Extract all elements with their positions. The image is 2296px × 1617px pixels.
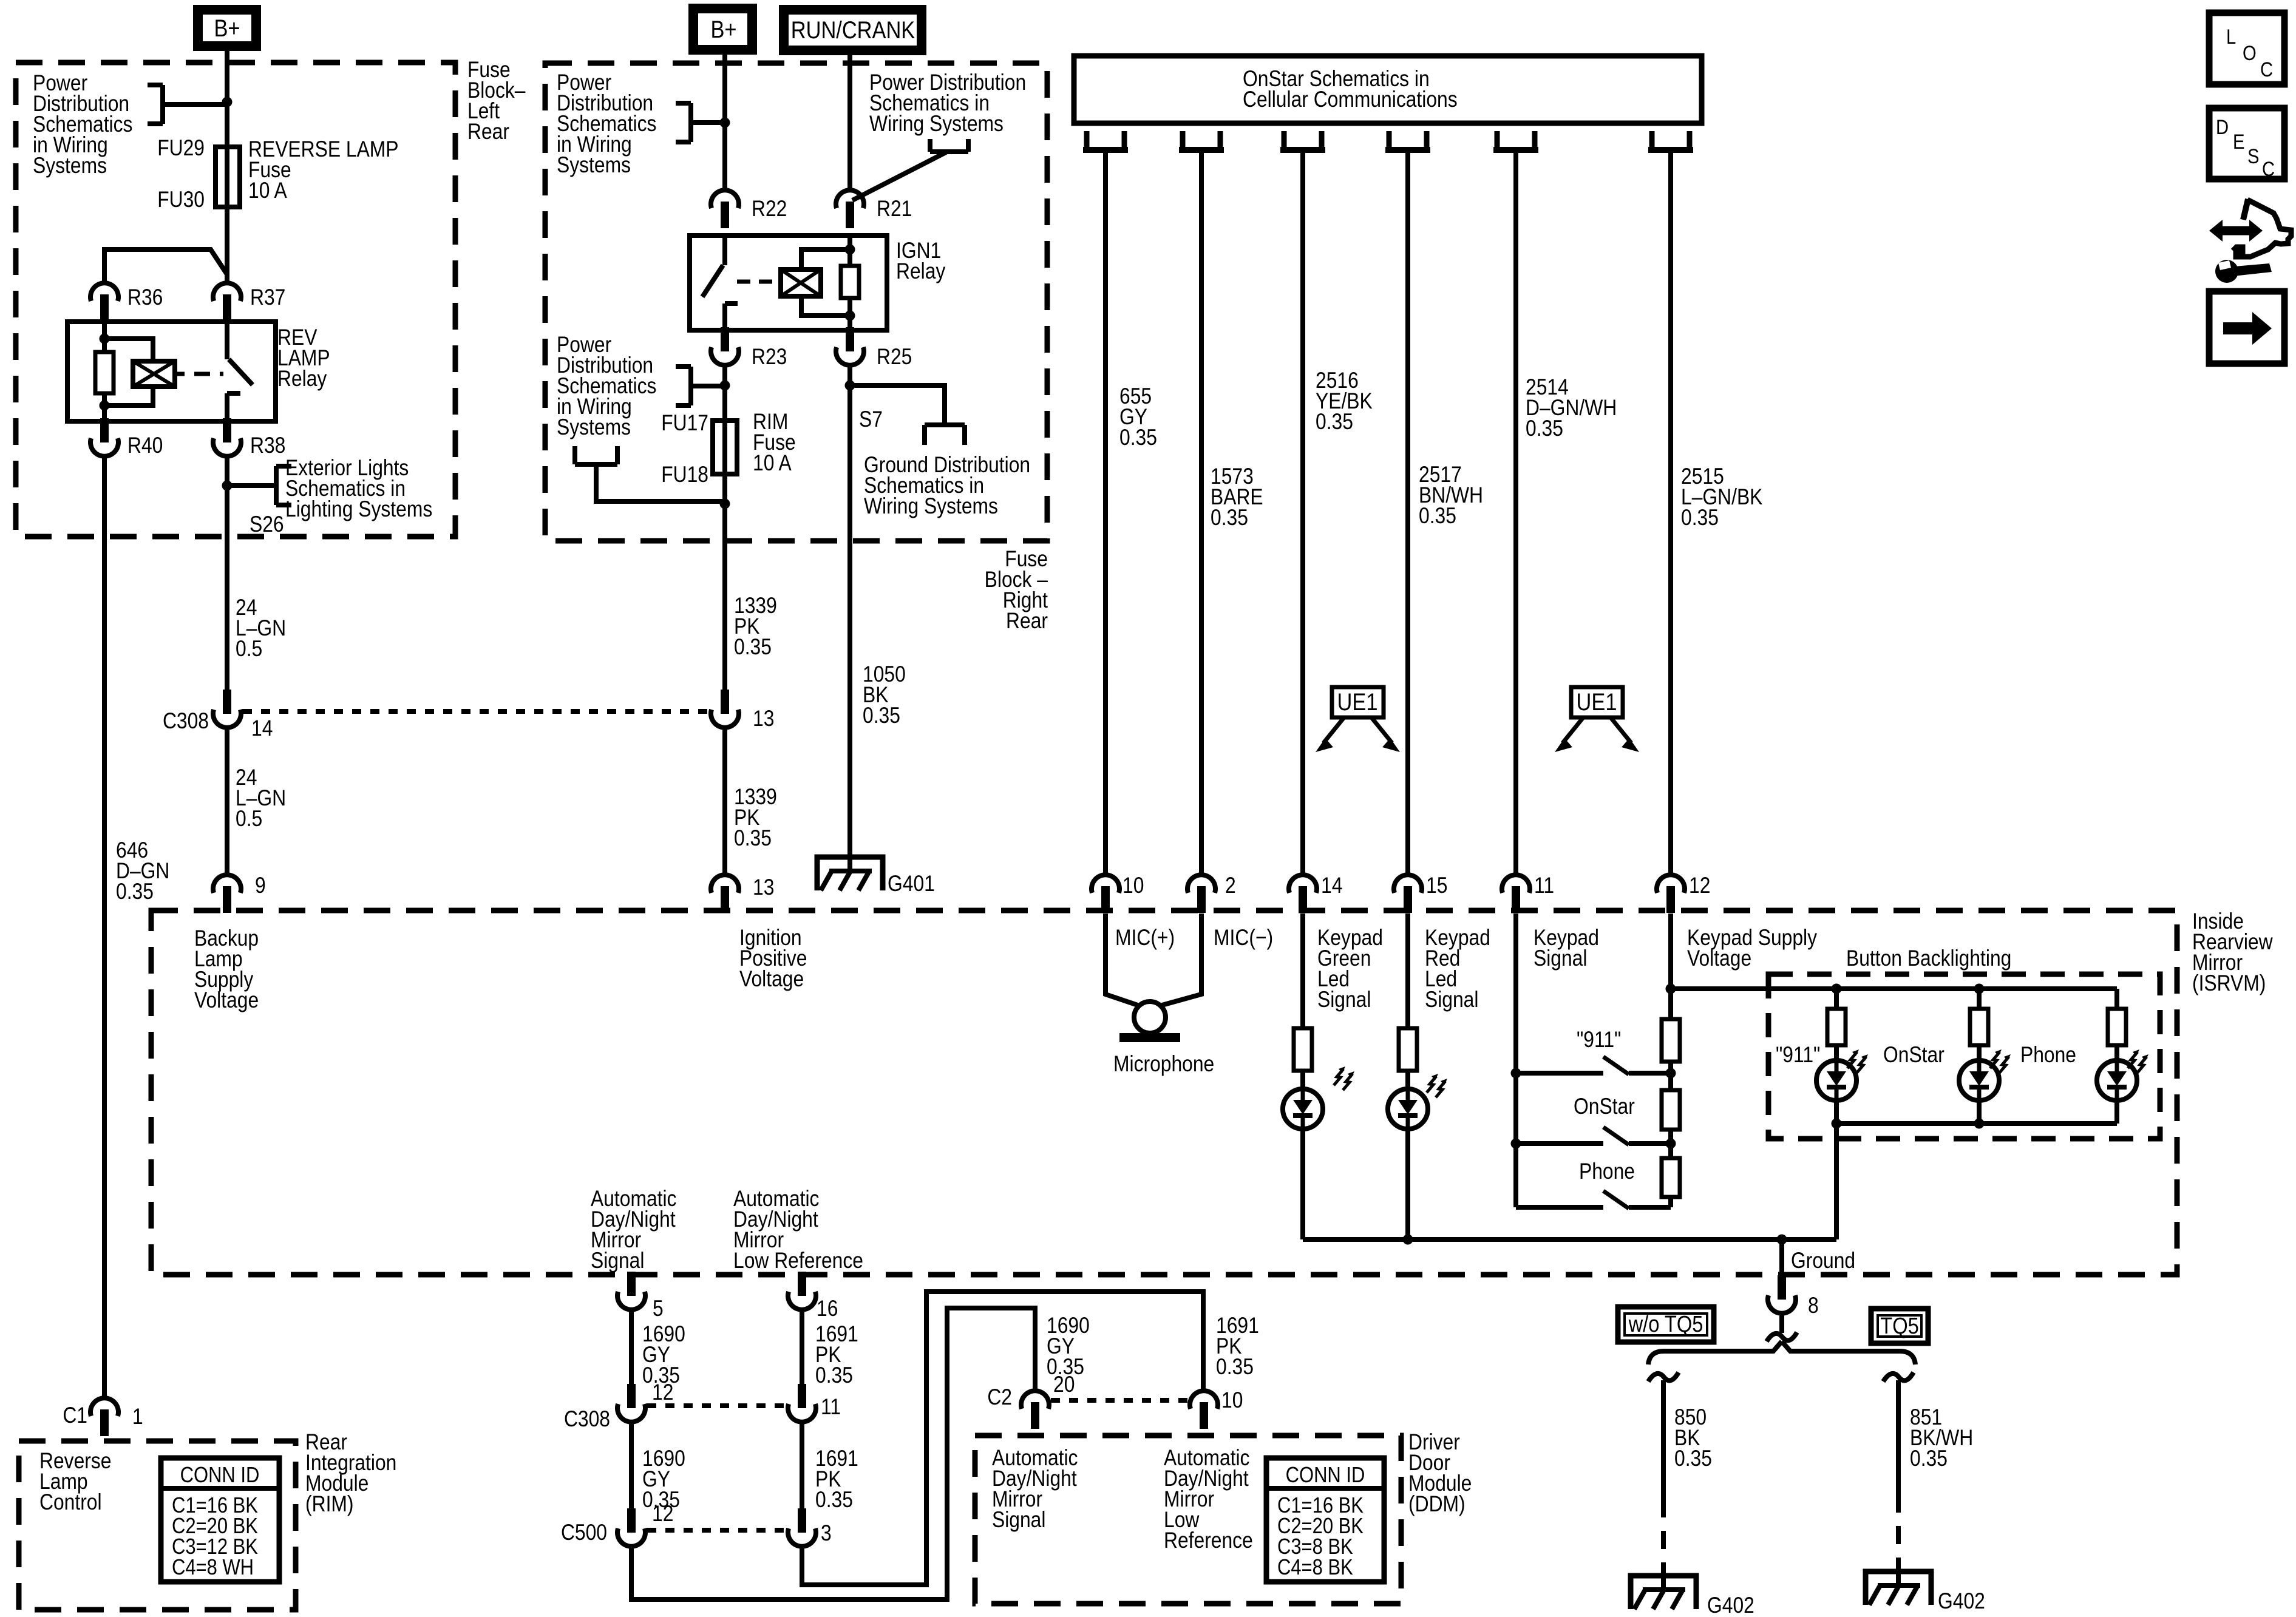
svg-text:(DDM): (DDM)	[1408, 1492, 1466, 1517]
svg-text:0.35: 0.35	[1119, 425, 1157, 450]
IGN1 relay coil parallel branch	[801, 249, 850, 269]
in-line connector C308 pin 14	[213, 710, 241, 728]
svg-text:TQ5: TQ5	[1880, 1313, 1919, 1339]
dashed enclosure Button Backlighting	[1768, 974, 2160, 1139]
REV LAMP relay coil-side wire with junctions	[102, 322, 107, 421]
wire 851 BK/WH to G402	[1896, 1380, 1901, 1494]
junction node below RIM fuse	[720, 499, 730, 509]
svg-text:R21: R21	[877, 197, 912, 222]
svg-text:O: O	[2243, 41, 2257, 65]
svg-text:CONN ID: CONN ID	[1286, 1463, 1365, 1488]
option tag UE1 (right pair)	[1571, 687, 1623, 717]
connector pin 10 MIC(+)	[1092, 875, 1119, 893]
svg-text:10 A: 10 A	[753, 451, 792, 476]
wire from R38 down to splice S26 and pin 9	[225, 458, 229, 702]
svg-text:13: 13	[753, 707, 774, 731]
connector tab for MIC(+) drop	[1084, 131, 1090, 150]
svg-text:Systems: Systems	[557, 153, 631, 178]
LED OnStar backlight	[1959, 1060, 1999, 1100]
LED keypad red	[1388, 1089, 1428, 1129]
svg-text:12: 12	[652, 1502, 673, 1527]
connector pin 8 ground exit	[1768, 1295, 1796, 1314]
junction node above RIM fuse	[720, 381, 730, 391]
svg-text:0.5: 0.5	[236, 637, 262, 662]
svg-text:3: 3	[821, 1521, 832, 1546]
svg-text:Signal: Signal	[992, 1508, 1045, 1533]
green LED light arrows	[1334, 1069, 1343, 1085]
callout bracket Exterior Lights Schematics	[227, 483, 276, 488]
svg-text:C1: C1	[63, 1403, 87, 1428]
chain wire C to bottom row	[1668, 1197, 1673, 1207]
svg-text:C500: C500	[561, 1520, 607, 1545]
wire 2517 BN/WH from OnStar to pin 15	[1405, 150, 1410, 873]
wire to Phone LED	[2114, 1045, 2119, 1060]
svg-text:Voltage: Voltage	[1687, 946, 1751, 971]
dashed enclosure Rear Integration Module (RIM)	[19, 1441, 296, 1610]
junction node relay coil top	[100, 334, 110, 344]
connector pin 11 Keypad Signal	[1502, 875, 1530, 893]
connector pin 5 mirror signal	[617, 1292, 645, 1310]
wire pin 12 keypad supply	[1668, 914, 1673, 1019]
wire to 911 LED	[1834, 1045, 1839, 1060]
svg-text:R36: R36	[127, 285, 163, 310]
callout bracket Power Distribution Schematics (col 2 upper)	[688, 103, 693, 142]
ground G402 (TQ5)	[1866, 1571, 1931, 1605]
icon forward arrow	[2209, 291, 2284, 364]
svg-text:12: 12	[1689, 873, 1710, 898]
LED Phone backlight	[2097, 1060, 2137, 1100]
svg-text:CONN ID: CONN ID	[180, 1463, 260, 1488]
wire B+ down to IGN1 relay pin R22	[722, 50, 727, 189]
junction node ground tap on bus	[1777, 1235, 1787, 1245]
power terminal B+ (right fuse block feed)	[693, 8, 752, 50]
svg-text:10: 10	[1123, 873, 1144, 898]
svg-text:Rear: Rear	[467, 120, 509, 144]
wire pin14 to green LED	[1300, 914, 1305, 1028]
wire 850 BK to G402	[1661, 1380, 1666, 1499]
dashed enclosure Driver Door Module (DDM)	[975, 1436, 1401, 1604]
REV LAMP relay switch contact and blade	[225, 322, 229, 359]
connector pin R36 (REV LAMP relay coil feed)	[90, 283, 118, 301]
connector pin 14 Keypad Green Led Signal	[1289, 875, 1317, 893]
svg-text:C308: C308	[564, 1407, 610, 1432]
wire 1573 BARE from OnStar to pin 2	[1199, 150, 1204, 873]
svg-text:S: S	[2247, 144, 2259, 168]
resistor 911 backlight	[1834, 989, 1839, 1009]
REV LAMP relay coil branch wiring	[104, 339, 153, 361]
wire C308-11 to C500-3	[800, 1423, 804, 1511]
chain wire A-B	[1668, 1062, 1673, 1090]
Phone backlight light arrows	[2128, 1052, 2138, 1068]
break symbol w/o TQ5 branch	[1648, 1372, 1679, 1381]
option tag UE1 (left pair)	[1332, 687, 1384, 717]
svg-text:C4=8 WH: C4=8 WH	[172, 1556, 254, 1580]
LED 911 backlight	[1816, 1060, 1856, 1100]
svg-text:Systems: Systems	[33, 154, 107, 178]
wire pin15 to red LED	[1405, 914, 1410, 1028]
connector pin 13 Ignition Positive Voltage	[711, 875, 739, 893]
reference box OnStar Schematics in Cellular Communications	[1074, 56, 1702, 123]
OnStar backlight light arrows	[1990, 1052, 2000, 1068]
svg-text:Voltage: Voltage	[739, 967, 804, 992]
icon DESC	[2209, 108, 2284, 179]
svg-text:OnStar: OnStar	[1574, 1094, 1635, 1119]
wire 655 GY from OnStar to pin 10	[1103, 150, 1108, 873]
svg-text:10 A: 10 A	[248, 178, 287, 203]
backlight return drop to ground bus	[1834, 1124, 1839, 1239]
junction node keypad signal 911 row	[1511, 1068, 1521, 1079]
svg-text:S7: S7	[859, 407, 883, 432]
svg-text:UE1: UE1	[1337, 688, 1378, 716]
relay REV LAMP Relay body	[67, 322, 276, 421]
svg-text:15: 15	[1426, 873, 1447, 898]
wire 2516 YE/BK from OnStar to pin 14	[1300, 150, 1305, 873]
svg-text:C: C	[2260, 58, 2273, 81]
junction node backlight resistor 1 feed	[1832, 984, 1842, 994]
backlight LED return rail	[1834, 1100, 1839, 1124]
keypad supply feed to button backlighting	[1671, 986, 2117, 991]
wire 1691 route C500-3 to C2-10	[802, 1292, 1203, 1585]
connector tab for keypad signal drop	[1495, 131, 1500, 150]
junction node keypad supply tap	[1666, 984, 1676, 994]
ground G402 (w/o TQ5)	[1631, 1576, 1696, 1609]
svg-text:Phone: Phone	[1579, 1159, 1635, 1184]
wire red LED to ground bus	[1405, 1129, 1410, 1239]
svg-text:FU29: FU29	[157, 136, 205, 161]
svg-text:20: 20	[1053, 1372, 1075, 1397]
svg-text:0.35: 0.35	[1211, 506, 1248, 531]
svg-text:S26: S26	[250, 512, 284, 537]
svg-text:B+: B+	[214, 15, 240, 42]
connector C2 pin 20	[1021, 1391, 1049, 1409]
svg-text:B+: B+	[710, 16, 736, 43]
power terminal B+ (left fuse block feed)	[198, 10, 256, 46]
svg-text:0.35: 0.35	[734, 826, 772, 851]
dashed enclosure Inside Rearview Mirror (ISRVM)	[151, 910, 2177, 1275]
icon LOC	[2209, 13, 2284, 84]
junction node relay coil bottom	[100, 401, 110, 411]
svg-text:FU30: FU30	[157, 188, 205, 212]
connector pin R23	[711, 347, 739, 365]
in-line connector C308 pin 13	[711, 710, 739, 728]
wire to OnStar LED	[1977, 1045, 1982, 1060]
dashed enclosure Fuse Block - Right Rear	[545, 63, 1047, 541]
connector pin 12 Keypad Supply Voltage	[1657, 875, 1685, 893]
svg-text:Rear: Rear	[1006, 609, 1048, 634]
connector C1 pin 1 Reverse Lamp Control	[90, 1398, 118, 1416]
svg-text:w/o TQ5: w/o TQ5	[1628, 1311, 1703, 1337]
svg-text:Low Reference: Low Reference	[733, 1249, 863, 1273]
svg-text:Lighting Systems: Lighting Systems	[285, 497, 432, 522]
svg-text:Signal: Signal	[1425, 988, 1478, 1012]
resistor inside REV LAMP relay	[95, 352, 114, 393]
svg-text:2: 2	[1225, 873, 1236, 898]
relay IGN1 Relay body	[690, 236, 887, 330]
junction node backlight return 1	[1832, 1119, 1842, 1129]
LED keypad green	[1283, 1089, 1323, 1129]
in-line connector C500 pin 3	[788, 1528, 816, 1547]
connector pin R21	[836, 190, 864, 208]
svg-text:Reference: Reference	[1164, 1528, 1253, 1553]
svg-text:0.35: 0.35	[1681, 506, 1719, 531]
svg-text:10: 10	[1221, 1388, 1243, 1413]
junction node IGN1 coil top	[845, 245, 855, 255]
connector tab for keypad red LED drop	[1387, 131, 1392, 150]
connector pin 9 Backup Lamp Supply Voltage	[213, 875, 241, 893]
svg-text:C2: C2	[987, 1385, 1012, 1410]
junction node IGN1 coil bottom	[845, 311, 855, 321]
callout bracket below Power Distribution text (to RIM fuse output)	[575, 462, 617, 467]
in-line connector C308 pin 12	[617, 1404, 645, 1422]
svg-text:UE1: UE1	[1577, 688, 1617, 716]
svg-text:Signal: Signal	[1533, 946, 1587, 971]
ground G401	[817, 857, 883, 890]
chain wire B-C	[1668, 1130, 1673, 1158]
svg-text:"911": "911"	[1776, 1043, 1820, 1068]
svg-text:(ISRVM): (ISRVM)	[2192, 971, 2266, 996]
table CONN ID (DDM)	[1266, 1458, 1384, 1582]
svg-text:C: C	[2262, 157, 2275, 181]
connector tab for keypad supply drop	[1649, 131, 1655, 150]
junction node keypad signal OnStar row	[1511, 1139, 1521, 1149]
911 backlight light arrows	[1847, 1052, 1857, 1068]
dotted connector tie line C308 row 1	[243, 709, 709, 714]
switch OnStar	[1516, 1141, 1603, 1146]
svg-text:L: L	[2226, 25, 2236, 49]
fuse REVERSE LAMP Fuse 10 A (FU29/FU30)	[216, 147, 240, 207]
wire from R25 down to ground G401	[847, 367, 852, 870]
svg-text:R38: R38	[250, 433, 285, 458]
svg-text:R23: R23	[752, 345, 787, 370]
switch 911	[1516, 1071, 1603, 1076]
wire below pin 8	[1779, 1315, 1784, 1333]
svg-text:11: 11	[821, 1395, 841, 1420]
svg-text:0.35: 0.35	[116, 880, 154, 904]
junction node on B+ wire (col 2)	[720, 118, 730, 128]
option tag w/o TQ5	[1618, 1307, 1714, 1342]
svg-text:0.35: 0.35	[1674, 1446, 1712, 1471]
svg-text:Button Backlighting: Button Backlighting	[1846, 946, 2011, 971]
callout S7 to Ground Distribution	[850, 385, 945, 425]
wire pin 5 to C308 pin 12	[629, 1311, 634, 1387]
svg-text:R25: R25	[877, 345, 912, 370]
svg-text:G402: G402	[1707, 1593, 1754, 1617]
connector tab for MIC(-) drop	[1180, 131, 1186, 150]
svg-text:0.35: 0.35	[1526, 416, 1563, 441]
in-line connector C500 pin 12	[617, 1528, 645, 1547]
junction node backlight return 2	[1974, 1119, 1985, 1129]
svg-text:OnStar: OnStar	[1883, 1043, 1944, 1068]
svg-text:E: E	[2233, 130, 2244, 154]
svg-text:Signal: Signal	[1317, 988, 1371, 1012]
dotted connector tie line C500 row	[647, 1528, 786, 1533]
svg-text:G401: G401	[888, 872, 935, 897]
connector pin R37 (REV LAMP relay switch feed)	[213, 283, 241, 301]
svg-text:(RIM): (RIM)	[305, 1492, 354, 1517]
svg-text:0.35: 0.35	[815, 1488, 853, 1513]
wire green LED to ground bus	[1300, 1129, 1305, 1239]
splice node S26	[222, 481, 233, 491]
ground bus inside ISRVM	[1303, 1237, 1836, 1242]
table CONN ID (RIM)	[161, 1458, 279, 1582]
callout bracket Power Distribution Schematics (top left)	[160, 85, 165, 124]
coil symbol (box with X) of IGN1 relay	[781, 269, 821, 296]
svg-text:D: D	[2216, 115, 2229, 139]
svg-text:14: 14	[1321, 873, 1342, 898]
svg-text:C4=8 BK: C4=8 BK	[1277, 1556, 1353, 1580]
break symbol at pin 8	[1767, 1332, 1797, 1341]
resistor inside IGN1 relay	[841, 266, 859, 298]
connector pin 2 MIC(-)	[1187, 875, 1215, 893]
wire below C308 pin 13	[722, 729, 727, 873]
svg-text:Relay: Relay	[896, 259, 946, 284]
resistor green LED limiter	[1294, 1028, 1312, 1071]
svg-text:G402: G402	[1938, 1589, 1985, 1614]
callout bracket to R21 wire	[930, 149, 968, 154]
svg-text:11: 11	[1534, 873, 1554, 898]
callout bracket Power Distribution (col 2 lower)	[688, 367, 693, 405]
svg-text:Signal: Signal	[591, 1249, 644, 1273]
svg-text:MIC(+): MIC(+)	[1115, 926, 1175, 951]
junction node S7 splice	[845, 381, 855, 391]
svg-text:Voltage: Voltage	[194, 988, 259, 1013]
svg-text:0.35: 0.35	[815, 1363, 853, 1388]
break symbol TQ5 branch	[1883, 1372, 1914, 1381]
dashed enclosure Fuse Block - Left Rear	[16, 63, 455, 537]
resistor keypad chain A	[1662, 1019, 1680, 1062]
junction node OnStar row right	[1666, 1139, 1676, 1149]
wire 2514 D-GN/WH from OnStar to pin 11	[1513, 150, 1518, 873]
svg-text:MIC(−): MIC(−)	[1214, 926, 1273, 951]
wire C308-12 to C500-12	[629, 1423, 634, 1511]
wire from R40 down the left margin to C1	[102, 458, 107, 1397]
resistor keypad chain B	[1662, 1090, 1680, 1130]
wire 1690 route C500-12 to C2-20	[631, 1308, 1035, 1599]
svg-text:0.35: 0.35	[863, 703, 900, 728]
svg-text:0.35: 0.35	[1910, 1446, 1948, 1471]
dotted connector tie line C2 row	[1051, 1398, 1188, 1403]
switch Phone	[1516, 1205, 1603, 1210]
svg-text:Wiring Systems: Wiring Systems	[864, 494, 998, 519]
UE1 left arrows	[1323, 717, 1344, 743]
svg-text:Control: Control	[39, 1490, 102, 1515]
wire branch from B+ wire to relay pin R36	[104, 249, 227, 282]
svg-text:Ground: Ground	[1791, 1249, 1855, 1273]
wire pin 16 to C308 pin 11	[800, 1311, 804, 1387]
wire 2515 L-GN/BK from OnStar to pin 12	[1668, 150, 1673, 873]
relay armature dashed linkage	[175, 372, 185, 376]
connector pin 15 Keypad Red Led Signal	[1394, 875, 1422, 893]
microphone wiring	[1106, 914, 1138, 1005]
svg-text:R37: R37	[250, 285, 285, 310]
svg-text:0.35: 0.35	[1419, 504, 1456, 529]
svg-text:8: 8	[1808, 1293, 1819, 1318]
option tag TQ5	[1871, 1309, 1928, 1343]
svg-text:16: 16	[817, 1297, 838, 1321]
svg-text:0.35: 0.35	[1216, 1355, 1254, 1380]
wire RUN/CRANK down to IGN1 relay pin R21	[847, 50, 852, 189]
microphone symbol	[1134, 1002, 1166, 1033]
svg-text:0.35: 0.35	[734, 635, 772, 660]
connector pin 16 mirror low reference	[788, 1292, 816, 1310]
connector pin R22	[711, 190, 739, 208]
svg-text:Wiring Systems: Wiring Systems	[869, 112, 1004, 137]
wire B+ down to fuse FU29 and relay pin R37	[225, 51, 229, 282]
svg-text:Phone: Phone	[2020, 1043, 2076, 1068]
resistor OnStar backlight	[1977, 989, 1982, 1009]
svg-text:Microphone: Microphone	[1113, 1052, 1214, 1077]
UE1 right arrows	[1563, 717, 1583, 743]
svg-text:Systems: Systems	[557, 415, 631, 440]
fuse RIM Fuse 10 A (FU17/FU18)	[713, 421, 737, 474]
IGN1 relay armature dashed linkage	[737, 280, 777, 284]
in-line connector C308 pin 11	[788, 1404, 816, 1422]
resistor red LED limiter	[1399, 1028, 1417, 1071]
coil symbol (box with X) of REV LAMP relay	[133, 361, 175, 387]
svg-text:Relay: Relay	[277, 367, 327, 392]
IGN1 relay switch contact and blade	[722, 236, 727, 265]
svg-text:14: 14	[251, 716, 273, 741]
junction node red LED on bus	[1403, 1235, 1413, 1245]
svg-text:9: 9	[255, 873, 266, 898]
junction node 911 row right	[1666, 1068, 1676, 1079]
svg-text:R40: R40	[127, 433, 163, 458]
wire from R23 down through RIM fuse to C308 pin 13	[722, 367, 727, 693]
connector C2 pin 10	[1190, 1391, 1218, 1409]
junction node backlight resistor 2 feed	[1974, 984, 1985, 994]
wire segment below C308 pin 14	[225, 729, 229, 873]
svg-text:RUN/CRANK: RUN/CRANK	[791, 16, 915, 44]
connector pin R40 (relay coil return)	[90, 438, 118, 456]
wire pin 11 keypad signal spine	[1513, 914, 1518, 1207]
svg-text:C308: C308	[163, 709, 209, 734]
wire resistor to green LED	[1300, 1071, 1305, 1089]
svg-text:0.35: 0.35	[1316, 410, 1353, 435]
connector pin R25	[836, 347, 864, 365]
connector tab for keypad green LED drop	[1282, 131, 1287, 150]
svg-text:FU18: FU18	[661, 463, 708, 487]
svg-text:12: 12	[652, 1380, 673, 1405]
IGN1 relay right-side wire	[847, 236, 852, 330]
resistor keypad chain C	[1662, 1158, 1680, 1197]
split fork to TQ5 variants	[1648, 1341, 1782, 1364]
svg-text:0.5: 0.5	[236, 807, 262, 832]
icon vehicle with arrow and wrench	[2243, 199, 2248, 220]
svg-text:FU17: FU17	[661, 411, 708, 436]
power terminal RUN/CRANK	[784, 10, 922, 50]
connector pin R38 (reverse lamp output)	[213, 438, 241, 456]
svg-text:5: 5	[653, 1297, 664, 1321]
dotted connector tie line C308 row 2	[647, 1403, 786, 1408]
wire ground tap to pin 8	[1779, 1239, 1784, 1278]
svg-text:13: 13	[753, 875, 774, 900]
resistor Phone backlight	[2114, 989, 2119, 1009]
svg-text:"911": "911"	[1577, 1028, 1621, 1053]
svg-text:1: 1	[132, 1405, 143, 1429]
red LED light arrows	[1427, 1076, 1436, 1093]
wire resistor to red LED	[1405, 1071, 1410, 1089]
node junction on B+ wire (power distribution tap)	[222, 97, 233, 107]
svg-text:R22: R22	[752, 197, 787, 222]
svg-text:Cellular Communications: Cellular Communications	[1243, 87, 1458, 112]
